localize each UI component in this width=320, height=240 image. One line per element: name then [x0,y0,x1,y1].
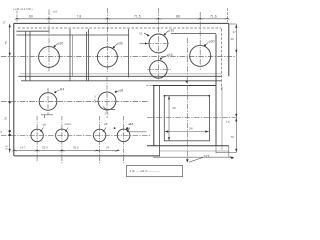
hidden edge dashed top [18,27,222,29]
bottom hole 2 [56,129,69,142]
svg-text:35.5: 35.5 [73,145,79,149]
svg-text:⌀16: ⌀16 [167,53,173,57]
bottom hole 1 [31,129,43,141]
top chain ticks [14,18,230,20]
circle 3 centerline vertical [199,12,201,70]
pocket wall mid a2 [71,35,73,76]
svg-text:16: 16 [231,37,235,41]
pocket wall left b [29,32,31,81]
title block [127,166,183,177]
pocket top edge [16,31,216,35]
svg-text:( ⌀30 +0.1 4 fili ): ( ⌀30 +0.1 4 fili ) [13,7,33,11]
pocket wall mid c [88,29,90,81]
svg-text:⌀8: ⌀8 [104,122,108,126]
pair centerline vertical [157,8,159,81]
svg-text:25.4: 25.4 [42,145,48,149]
bottom hole 4 [117,129,130,142]
pair centerline horiz top [148,42,170,44]
svg-text:+0.1: +0.1 [53,10,59,14]
callout shelf line [104,107,116,110]
svg-text:R4: R4 [60,88,64,92]
bottom dimension chain [14,150,119,152]
wall x216 [215,34,217,146]
svg-text:⌀30: ⌀30 [58,41,64,45]
svg-text:16: 16 [139,32,143,36]
middle circle right centerline [106,77,108,115]
svg-text:25: 25 [4,117,8,121]
right aux dim line x222 [221,86,223,150]
short ext dash x95 [94,96,96,104]
svg-text:88: 88 [176,14,180,18]
leader pair top [165,31,168,34]
right square inner rect [164,96,209,141]
d8 label arrow blob [126,127,128,129]
svg-text:4 fılı — ≈⌀4 ℗ ————: 4 fılı — ≈⌀4 ℗ ———— [130,169,160,173]
pocket wall mid a [69,29,71,81]
label 16 leader [144,33,149,35]
circle 3 [190,45,211,66]
square centerline horizontal [147,117,237,119]
main centerline horizontal [1,56,237,58]
right chain ext at y24 [230,23,237,25]
right chain ext at y152 [216,151,237,153]
middle circle left centerline [47,88,49,115]
bottom edge of front view [14,155,160,157]
svg-text:36: 36 [172,106,176,110]
inner rect horizontal dimension [165,131,209,133]
pocket wall mid b [85,32,87,81]
top chain ext line x227 [226,8,228,22]
svg-text:17: 17 [233,30,237,34]
leader circle5 [116,91,119,92]
svg-text:71.6: 71.6 [210,14,217,18]
leader pair bottom [161,56,166,59]
svg-text:74.5: 74.5 [204,154,210,158]
hole 2 centerline vertical [61,116,63,164]
leader R4 [55,90,59,92]
small circle pair bottom [150,61,168,79]
svg-text:71.5: 71.5 [134,14,141,18]
middle row centerline horizontal [1,101,148,103]
leader circle2 [114,44,117,47]
mark above hole1 [41,115,53,118]
svg-text:70: 70 [231,135,235,139]
top chain ext line x17 [16,11,18,23]
svg-text:⌀36: ⌀36 [117,42,123,46]
svg-text:8.5: 8.5 [5,145,9,150]
hole 4 centerline vertical [123,116,125,164]
aux line y151 [159,150,228,152]
hole 3 centerline vertical [99,116,101,164]
middle circle right [98,92,116,110]
svg-text:⌀16: ⌀16 [168,28,174,32]
bottom hidden edge [21,80,221,82]
bottom right dimension line [153,156,233,158]
hidden wall dashed right [220,29,222,90]
svg-text:56: 56 [189,127,193,131]
pair centerline horiz bottom [148,68,172,70]
bottom holes centerline horizontal [1,134,151,136]
leader circle1 [55,44,58,47]
pocket wall right [128,29,130,78]
svg-text:60: 60 [29,14,33,18]
svg-text:⌀10⊥: ⌀10⊥ [65,122,73,126]
thin aux line right [20,73,221,75]
svg-text:17: 17 [3,21,7,25]
top view outline [14,23,229,156]
leader circle3 [205,42,208,45]
ext tick x216 [215,146,217,154]
right square view outer [147,86,229,147]
hole 1 centerline vertical [36,116,38,163]
small arrow pair left [140,43,146,45]
circle 1 centerline vertical [48,10,50,73]
circle 1 [39,47,60,68]
left dimension chain [9,24,11,153]
bottom hole 3 [93,129,105,141]
title block leader [189,157,203,162]
inner rect corner dots [164,95,211,97]
small circle pair top [149,34,168,53]
circle 2 centerline vertical [106,8,108,72]
top view bottom edge [18,75,221,77]
svg-text:24: 24 [106,145,110,149]
svg-text:14.7: 14.7 [20,145,26,149]
d8 label underline [127,131,146,133]
inner rect vertical dimension [168,96,170,141]
svg-text:7.0: 7.0 [226,120,231,124]
square top centerline stub [147,84,153,86]
svg-text:⌀6: ⌀6 [43,123,47,127]
svg-text:⌀30: ⌀30 [209,39,215,43]
pocket wall left a [25,32,27,81]
ext x228.8 low [228,146,230,157]
leaders bottom holes [41,128,130,131]
right square inner-left wall [158,86,160,157]
svg-text:⌀8: ⌀8 [119,89,123,93]
blob on bottom edge [186,80,188,82]
top dimension chain line [17,18,228,20]
svg-text:75: 75 [4,41,8,45]
square centerline vertical [186,38,188,161]
middle circle left [39,93,57,111]
circle 2 [97,47,117,67]
right dimension chain [235,24,237,152]
svg-text:7.8: 7.8 [77,14,82,18]
svg-text:⌀ 8: ⌀ 8 [129,122,134,126]
